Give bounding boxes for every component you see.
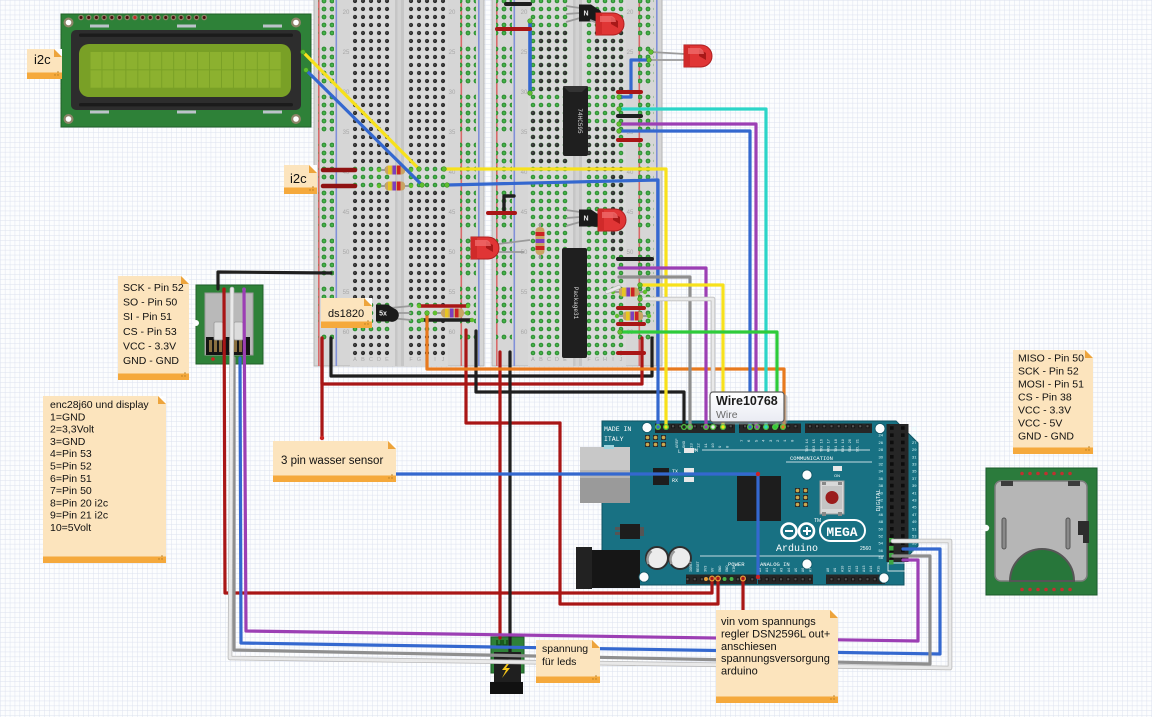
svg-text:GND: GND <box>719 566 723 572</box>
svg-text:40: 40 <box>627 170 634 176</box>
svg-text:6=Pin 51: 6=Pin 51 <box>50 473 92 485</box>
svg-text:MEGA: MEGA <box>826 525 857 540</box>
svg-text:45: 45 <box>449 210 456 216</box>
svg-text:30: 30 <box>449 90 456 96</box>
svg-text:GND: GND <box>683 440 687 448</box>
svg-text:SCK - Pin 52: SCK - Pin 52 <box>1018 366 1079 378</box>
svg-text:A12: A12 <box>856 566 860 572</box>
svg-text:CS - Pin 53: CS - Pin 53 <box>123 326 177 338</box>
svg-text:26: 26 <box>879 440 884 445</box>
svg-text:5x: 5x <box>379 311 387 318</box>
svg-text:A2: A2 <box>773 568 777 572</box>
svg-text:Package31: Package31 <box>572 287 579 320</box>
svg-text:TX3 14: TX3 14 <box>806 439 810 452</box>
svg-text:RX1 19: RX1 19 <box>842 439 846 452</box>
svg-text:60: 60 <box>521 330 528 336</box>
svg-text:40: 40 <box>449 170 456 176</box>
svg-text:2=3,3Volt: 2=3,3Volt <box>50 424 94 436</box>
svg-text:Wire10768: Wire10768 <box>716 394 778 408</box>
svg-text:N: N <box>583 11 588 18</box>
svg-text:N: N <box>583 216 588 223</box>
svg-text:SCK - Pin 52: SCK - Pin 52 <box>123 282 184 294</box>
svg-text:46: 46 <box>879 512 884 517</box>
svg-text:G: G <box>417 357 421 363</box>
svg-text:vin vom spannungs: vin vom spannungs <box>721 616 816 628</box>
svg-text:9=Pin 21 i2c: 9=Pin 21 i2c <box>50 510 108 522</box>
svg-text:MOSI - Pin 51: MOSI - Pin 51 <box>1018 379 1084 391</box>
svg-text:56: 56 <box>879 548 884 553</box>
svg-text:Wire: Wire <box>716 409 738 421</box>
svg-text:11: 11 <box>705 443 709 448</box>
svg-text:51: 51 <box>912 526 917 531</box>
svg-text:A6: A6 <box>802 568 806 572</box>
svg-text:SO - Pin 50: SO - Pin 50 <box>123 297 177 309</box>
svg-text:A11: A11 <box>849 566 853 572</box>
svg-text:DIGITAL: DIGITAL <box>876 489 882 512</box>
svg-text:ITALY: ITALY <box>604 436 624 443</box>
svg-text:arduino: arduino <box>721 666 758 678</box>
svg-text:spannung: spannung <box>542 643 588 655</box>
svg-text:ds1820: ds1820 <box>328 308 364 320</box>
svg-text:45: 45 <box>521 210 528 216</box>
svg-text:30: 30 <box>521 90 528 96</box>
svg-text:3V3: 3V3 <box>704 566 708 572</box>
svg-text:36: 36 <box>879 476 884 481</box>
svg-text:50: 50 <box>627 250 634 256</box>
svg-text:54: 54 <box>879 541 884 546</box>
svg-text:A: A <box>531 357 535 363</box>
svg-text:33: 33 <box>912 462 917 467</box>
svg-text:TX2 16: TX2 16 <box>820 439 824 452</box>
svg-text:35: 35 <box>449 130 456 136</box>
svg-text:10: 10 <box>712 443 716 448</box>
svg-text:20: 20 <box>627 10 634 16</box>
svg-text:10=5Volt: 10=5Volt <box>50 522 91 534</box>
svg-text:SDA 20: SDA 20 <box>849 439 853 452</box>
svg-text:13: 13 <box>690 443 694 448</box>
svg-text:MADE IN: MADE IN <box>604 426 631 433</box>
svg-text:A1: A1 <box>766 568 770 572</box>
svg-text:A3: A3 <box>781 568 785 572</box>
svg-text:Arduino: Arduino <box>776 543 818 555</box>
svg-text:35: 35 <box>521 130 528 136</box>
svg-text:GND - GND: GND - GND <box>123 355 179 367</box>
svg-text:RX: RX <box>672 478 678 484</box>
svg-text:A7: A7 <box>809 568 813 572</box>
svg-text:30: 30 <box>879 454 884 459</box>
svg-text:L: L <box>678 449 681 455</box>
svg-text:i2c: i2c <box>34 52 51 67</box>
svg-text:45: 45 <box>627 210 634 216</box>
svg-text:A10: A10 <box>841 566 845 572</box>
svg-text:32: 32 <box>879 462 884 467</box>
svg-text:45: 45 <box>912 505 917 510</box>
svg-text:G: G <box>595 357 599 363</box>
svg-text:45: 45 <box>343 210 350 216</box>
svg-text:ON: ON <box>834 473 840 478</box>
svg-text:A9: A9 <box>834 568 838 572</box>
svg-text:SI - Pin 51: SI - Pin 51 <box>123 311 172 323</box>
svg-text:3 pin wasser sensor: 3 pin wasser sensor <box>281 455 383 467</box>
svg-text:37: 37 <box>912 476 917 481</box>
svg-text:GND: GND <box>726 566 730 572</box>
svg-text:20: 20 <box>343 10 350 16</box>
svg-text:C: C <box>547 357 551 363</box>
svg-text:A5: A5 <box>795 568 799 572</box>
svg-text:SCL 21: SCL 21 <box>856 439 860 452</box>
svg-text:VCC - 3.3V: VCC - 3.3V <box>1018 405 1071 417</box>
svg-text:25: 25 <box>521 50 528 56</box>
svg-text:55: 55 <box>343 290 350 296</box>
svg-text:B: B <box>539 357 543 363</box>
svg-text:B: B <box>361 357 365 363</box>
svg-text:RX2 17: RX2 17 <box>828 439 832 452</box>
svg-text:47: 47 <box>912 512 917 517</box>
svg-text:TM: TM <box>814 518 821 524</box>
svg-text:12: 12 <box>698 443 702 448</box>
svg-text:A4: A4 <box>788 568 792 572</box>
svg-text:20: 20 <box>449 10 456 16</box>
svg-text:50: 50 <box>879 526 884 531</box>
svg-text:spannungsversorgung: spannungsversorgung <box>721 653 830 665</box>
svg-text:29: 29 <box>912 447 917 452</box>
svg-text:35: 35 <box>343 130 350 136</box>
svg-text:25: 25 <box>449 50 456 56</box>
svg-text:25: 25 <box>343 50 350 56</box>
svg-text:74HC595: 74HC595 <box>576 108 583 134</box>
svg-text:C: C <box>369 357 373 363</box>
svg-text:RESET: RESET <box>697 560 701 572</box>
svg-text:20: 20 <box>521 10 528 16</box>
svg-text:50: 50 <box>521 250 528 256</box>
svg-text:39: 39 <box>912 483 917 488</box>
svg-text:ANALOG IN: ANALOG IN <box>760 561 790 568</box>
svg-text:A: A <box>353 357 357 363</box>
svg-text:J: J <box>620 357 623 363</box>
svg-text:GND - GND: GND - GND <box>1018 431 1074 443</box>
svg-text:4=Pin 53: 4=Pin 53 <box>50 448 92 460</box>
svg-text:MISO - Pin 50: MISO - Pin 50 <box>1018 353 1084 365</box>
svg-text:53: 53 <box>912 534 917 539</box>
svg-text:41: 41 <box>912 490 917 495</box>
svg-text:43: 43 <box>912 498 917 503</box>
svg-text:E: E <box>385 357 389 363</box>
svg-text:55: 55 <box>521 290 528 296</box>
svg-text:i2c: i2c <box>290 171 307 186</box>
svg-text:A14: A14 <box>870 566 874 572</box>
svg-text:3=GND: 3=GND <box>50 436 86 448</box>
svg-text:anschiesen: anschiesen <box>721 641 777 653</box>
svg-text:RX3 15: RX3 15 <box>813 439 817 452</box>
svg-text:COMMUNICATION: COMMUNICATION <box>790 455 833 462</box>
svg-text:2560: 2560 <box>860 546 871 552</box>
svg-text:60: 60 <box>343 330 350 336</box>
svg-text:VCC - 5V: VCC - 5V <box>1018 418 1062 430</box>
svg-text:D: D <box>555 357 559 363</box>
svg-text:1=GND: 1=GND <box>50 411 86 423</box>
svg-text:A15: A15 <box>877 566 881 572</box>
svg-text:34: 34 <box>879 469 884 474</box>
svg-text:5=Pin 52: 5=Pin 52 <box>50 461 92 473</box>
svg-text:TX1 18: TX1 18 <box>835 439 839 452</box>
svg-text:31: 31 <box>912 454 917 459</box>
svg-text:GND: GND <box>911 566 922 571</box>
svg-text:H: H <box>603 357 607 363</box>
svg-text:für leds: für leds <box>542 656 576 668</box>
svg-text:CS - Pin 38: CS - Pin 38 <box>1018 392 1072 404</box>
svg-text:8=Pin 20 i2c: 8=Pin 20 i2c <box>50 497 108 509</box>
svg-text:48: 48 <box>879 519 884 524</box>
svg-text:enc28j60 und display: enc28j60 und display <box>50 399 149 411</box>
svg-text:50: 50 <box>449 250 456 256</box>
svg-text:28: 28 <box>879 447 884 452</box>
svg-text:7=Pin 50: 7=Pin 50 <box>50 485 92 497</box>
svg-text:40: 40 <box>521 170 528 176</box>
svg-text:A8: A8 <box>827 568 831 572</box>
svg-text:25: 25 <box>627 50 634 56</box>
svg-text:27: 27 <box>912 440 917 445</box>
svg-text:J: J <box>442 357 445 363</box>
svg-text:VIN: VIN <box>733 566 737 572</box>
svg-text:A13: A13 <box>863 566 867 572</box>
svg-text:IOREF: IOREF <box>690 561 694 572</box>
svg-text:23: 23 <box>912 426 917 431</box>
svg-text:AREF: AREF <box>676 438 680 448</box>
svg-text:38: 38 <box>879 483 884 488</box>
svg-text:55: 55 <box>449 290 456 296</box>
svg-text:25: 25 <box>912 433 917 438</box>
svg-text:35: 35 <box>912 469 917 474</box>
svg-text:50: 50 <box>343 250 350 256</box>
svg-text:regler DSN2596L out+: regler DSN2596L out+ <box>721 628 830 640</box>
svg-text:60: 60 <box>449 330 456 336</box>
svg-text:D: D <box>377 357 381 363</box>
svg-text:VCC - 3.3V: VCC - 3.3V <box>123 340 176 352</box>
svg-text:52: 52 <box>879 534 884 539</box>
svg-text:49: 49 <box>912 519 917 524</box>
